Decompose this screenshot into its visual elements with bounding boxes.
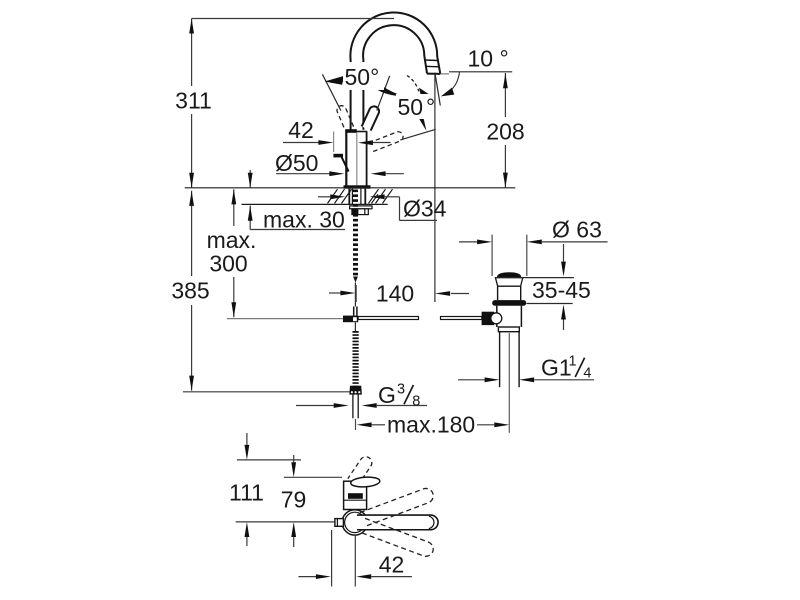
dia34 left arrow [330, 194, 345, 199]
140 dimension line right [451, 293, 469, 295]
35-45 lower arrow with shaft [563, 311, 565, 330]
dia34 leader step [399, 197, 401, 221]
dia34 dimension line left [318, 196, 330, 198]
hose connector cone [349, 386, 362, 395]
79 lower arrow with shaft [293, 529, 295, 547]
111 lower arrow with shaft [246, 529, 248, 546]
topview handle body [344, 481, 367, 509]
311 bottom arrow [189, 173, 194, 188]
140 dimension line left [329, 292, 341, 294]
svg-text:8: 8 [412, 394, 420, 410]
385 dimension line [191, 191, 193, 391]
svg-text:4: 4 [583, 366, 591, 382]
42bottom dimension line right [371, 576, 412, 578]
counter bottom line [242, 203, 388, 205]
10deg arc [450, 72, 460, 91]
svg-text:140: 140 [376, 281, 414, 307]
42bottom left arrow [316, 574, 331, 579]
horizontal actuation rod segment 1 [358, 317, 418, 320]
popup tailpipe walls [500, 332, 519, 388]
popup side port circle [491, 313, 502, 324]
42top right arrow [358, 140, 373, 145]
dia50 dimension line right [386, 173, 404, 175]
max180 dimension line right [477, 424, 494, 426]
G38 left arrow [334, 403, 349, 408]
385 bottom arrow [189, 376, 194, 391]
50deg left arc arrowhead [325, 76, 345, 85]
outlet vertical reference line [434, 74, 436, 302]
G38 right arrow [362, 403, 377, 408]
10deg tilted nozzle axis line [435, 73, 440, 106]
counter top line [185, 187, 516, 189]
svg-text:Ø50: Ø50 [275, 150, 318, 176]
385 top arrow [189, 191, 194, 206]
max300 label [203, 226, 259, 277]
max30 leader underline [250, 229, 345, 231]
111 upper arrow with shaft [246, 433, 248, 452]
faucet spout gooseneck outline [350, 12, 440, 129]
385 extension line bottom [183, 391, 350, 393]
42top dimension line left [283, 142, 328, 144]
max30 lower arrow with shaft [249, 206, 251, 230]
topview spout bar solid [357, 515, 438, 530]
50deg left label [343, 62, 384, 90]
threaded rod dotted column [353, 190, 358, 277]
G38 dimension line left [296, 405, 336, 407]
10deg arc arrowhead [441, 88, 454, 97]
dia63 extension line right [526, 235, 528, 276]
G114 dimension line left [458, 379, 485, 381]
10deg reference line under label [449, 71, 512, 73]
popup lower body walls [497, 306, 522, 327]
svg-text:42: 42 [379, 552, 405, 578]
385 label [175, 276, 208, 305]
svg-text:10 °: 10 ° [468, 46, 509, 72]
popup coupling nut [498, 327, 519, 332]
connector pipe walls [353, 395, 358, 419]
linkage pivot block [343, 316, 358, 323]
G38 dimension line right [377, 405, 427, 407]
topview extension line 79 [284, 476, 342, 478]
50deg swivel label [396, 94, 434, 119]
dia63 dimension line left [459, 241, 477, 243]
svg-text:1: 1 [569, 354, 577, 370]
G114 left arrow [485, 377, 500, 382]
311 dimension line [191, 19, 193, 188]
svg-text:Ø 63: Ø 63 [552, 217, 602, 243]
dia63 dimension line right [542, 241, 608, 243]
max180 dimension line left [372, 424, 385, 426]
faucet base flange [344, 185, 371, 188]
50deg left leg line [322, 74, 341, 110]
dia63 right arrow [527, 240, 542, 245]
311 top arrow [189, 19, 194, 34]
50deg swivel lower arc arrowhead [418, 115, 427, 131]
popup flange oring [492, 300, 526, 306]
max30 upper arrow with shaft [249, 170, 251, 188]
svg-text:208: 208 [486, 119, 524, 145]
svg-text:G: G [378, 382, 396, 408]
topview side stub [335, 519, 344, 527]
popup centerline [508, 333, 510, 433]
svg-text:max. 30: max. 30 [263, 207, 345, 233]
topview spout dashed down position [360, 518, 435, 558]
42top left arrow [318, 140, 333, 145]
svg-text:385: 385 [171, 278, 209, 304]
svg-text:max.: max. [207, 227, 257, 253]
linkage fork [354, 307, 357, 316]
311 extension line top [192, 18, 394, 20]
42bottom dimension line left [298, 576, 317, 578]
max300 dimension line [233, 189, 235, 317]
42top label [286, 119, 316, 141]
topview extension line spout axis [236, 521, 341, 523]
faucet body outline [346, 130, 367, 186]
topview spout end crescent [429, 516, 434, 528]
line below pivot block [354, 322, 356, 331]
50deg swivel arc [407, 76, 419, 92]
35-45 upper reference line [495, 277, 574, 279]
svg-text:50: 50 [398, 94, 424, 120]
dia34 dimension line right [385, 196, 400, 198]
G114 dimension line right [534, 379, 594, 381]
spout aerator joint lines [425, 60, 439, 67]
42top left extension line [333, 132, 335, 153]
pop-up pull rod knob [333, 154, 343, 158]
popup side port block [482, 312, 495, 325]
svg-text:Ø34: Ø34 [403, 196, 447, 222]
svg-text:3: 3 [397, 382, 405, 398]
140 left arrow [340, 291, 355, 296]
42top dimension line right [373, 142, 391, 144]
topview spout dashed up position [360, 486, 435, 526]
threaded rod pointed tip [353, 277, 358, 283]
popup neck [495, 278, 523, 286]
42bottom right arrow [356, 574, 371, 579]
42bottom extension line right [354, 536, 356, 587]
dia63 extension line left [491, 235, 493, 276]
dia63 left arrow [477, 240, 492, 245]
50deg right arc arrowhead [371, 79, 405, 97]
topview body circles [342, 510, 367, 535]
pop-up pull rod shaft [342, 157, 349, 172]
svg-text:50°: 50° [345, 64, 380, 90]
svg-text:max.180: max.180 [387, 412, 475, 438]
G114 right arrow [519, 377, 534, 382]
faucet body centerline [356, 133, 358, 185]
svg-text:°: ° [426, 94, 435, 120]
311 label [176, 86, 209, 114]
rod thin link line [354, 283, 356, 307]
dia34 right arrow [370, 194, 385, 199]
35-45 lower reference line [527, 303, 573, 305]
max180 left arrow [357, 422, 372, 427]
max300 bottom arrow [231, 302, 236, 317]
shank lock nut [352, 209, 368, 215]
140 extension line [355, 285, 357, 302]
max180 right arrow [494, 422, 509, 427]
208 dimension line [504, 73, 506, 188]
svg-text:300: 300 [209, 251, 247, 277]
dia50 dimension line left [276, 173, 330, 175]
faucet body top dark cap [345, 129, 356, 133]
shank washer [350, 206, 372, 209]
handle lever solid (front, tilted right) [362, 106, 379, 130]
supply hose braided column [353, 331, 359, 386]
mounting shank walls [349, 189, 365, 205]
handle lever dashed lowered position (front) [370, 132, 403, 152]
208 top arrow [503, 73, 508, 88]
50deg right leg line [377, 76, 390, 111]
topview handle knob ellipse [350, 476, 380, 488]
svg-text:311: 311 [175, 88, 212, 114]
svg-text:35-45: 35-45 [532, 277, 591, 303]
50deg swivel leg line [400, 129, 435, 140]
popup plug cap [497, 272, 521, 277]
50deg swivel arc arrowhead [419, 88, 433, 97]
svg-text:79: 79 [281, 487, 307, 513]
svg-text:G1: G1 [541, 355, 572, 381]
topview extension line 111 [237, 459, 301, 461]
svg-text:111: 111 [229, 480, 264, 506]
208 label [486, 117, 527, 145]
dia50 right arrow [371, 171, 386, 176]
handle lever dashed left position (front) [337, 106, 354, 131]
linkage extension line left [227, 318, 343, 320]
79 upper arrow with shaft [293, 455, 295, 470]
max300 top arrow [231, 189, 236, 204]
svg-text:42: 42 [288, 117, 314, 143]
max180 left extension [355, 419, 357, 430]
popup upper body walls [498, 286, 521, 300]
counter hatching [328, 189, 393, 203]
dia50 left arrow [329, 171, 344, 176]
42bottom extension line left [331, 530, 333, 587]
140 right arrow [435, 291, 450, 296]
35-45 upper arrow with shaft [563, 244, 565, 269]
208 bottom arrow [503, 173, 508, 188]
horizontal actuation rod segment 2 [441, 317, 482, 320]
topview dashed handle position [348, 457, 372, 486]
